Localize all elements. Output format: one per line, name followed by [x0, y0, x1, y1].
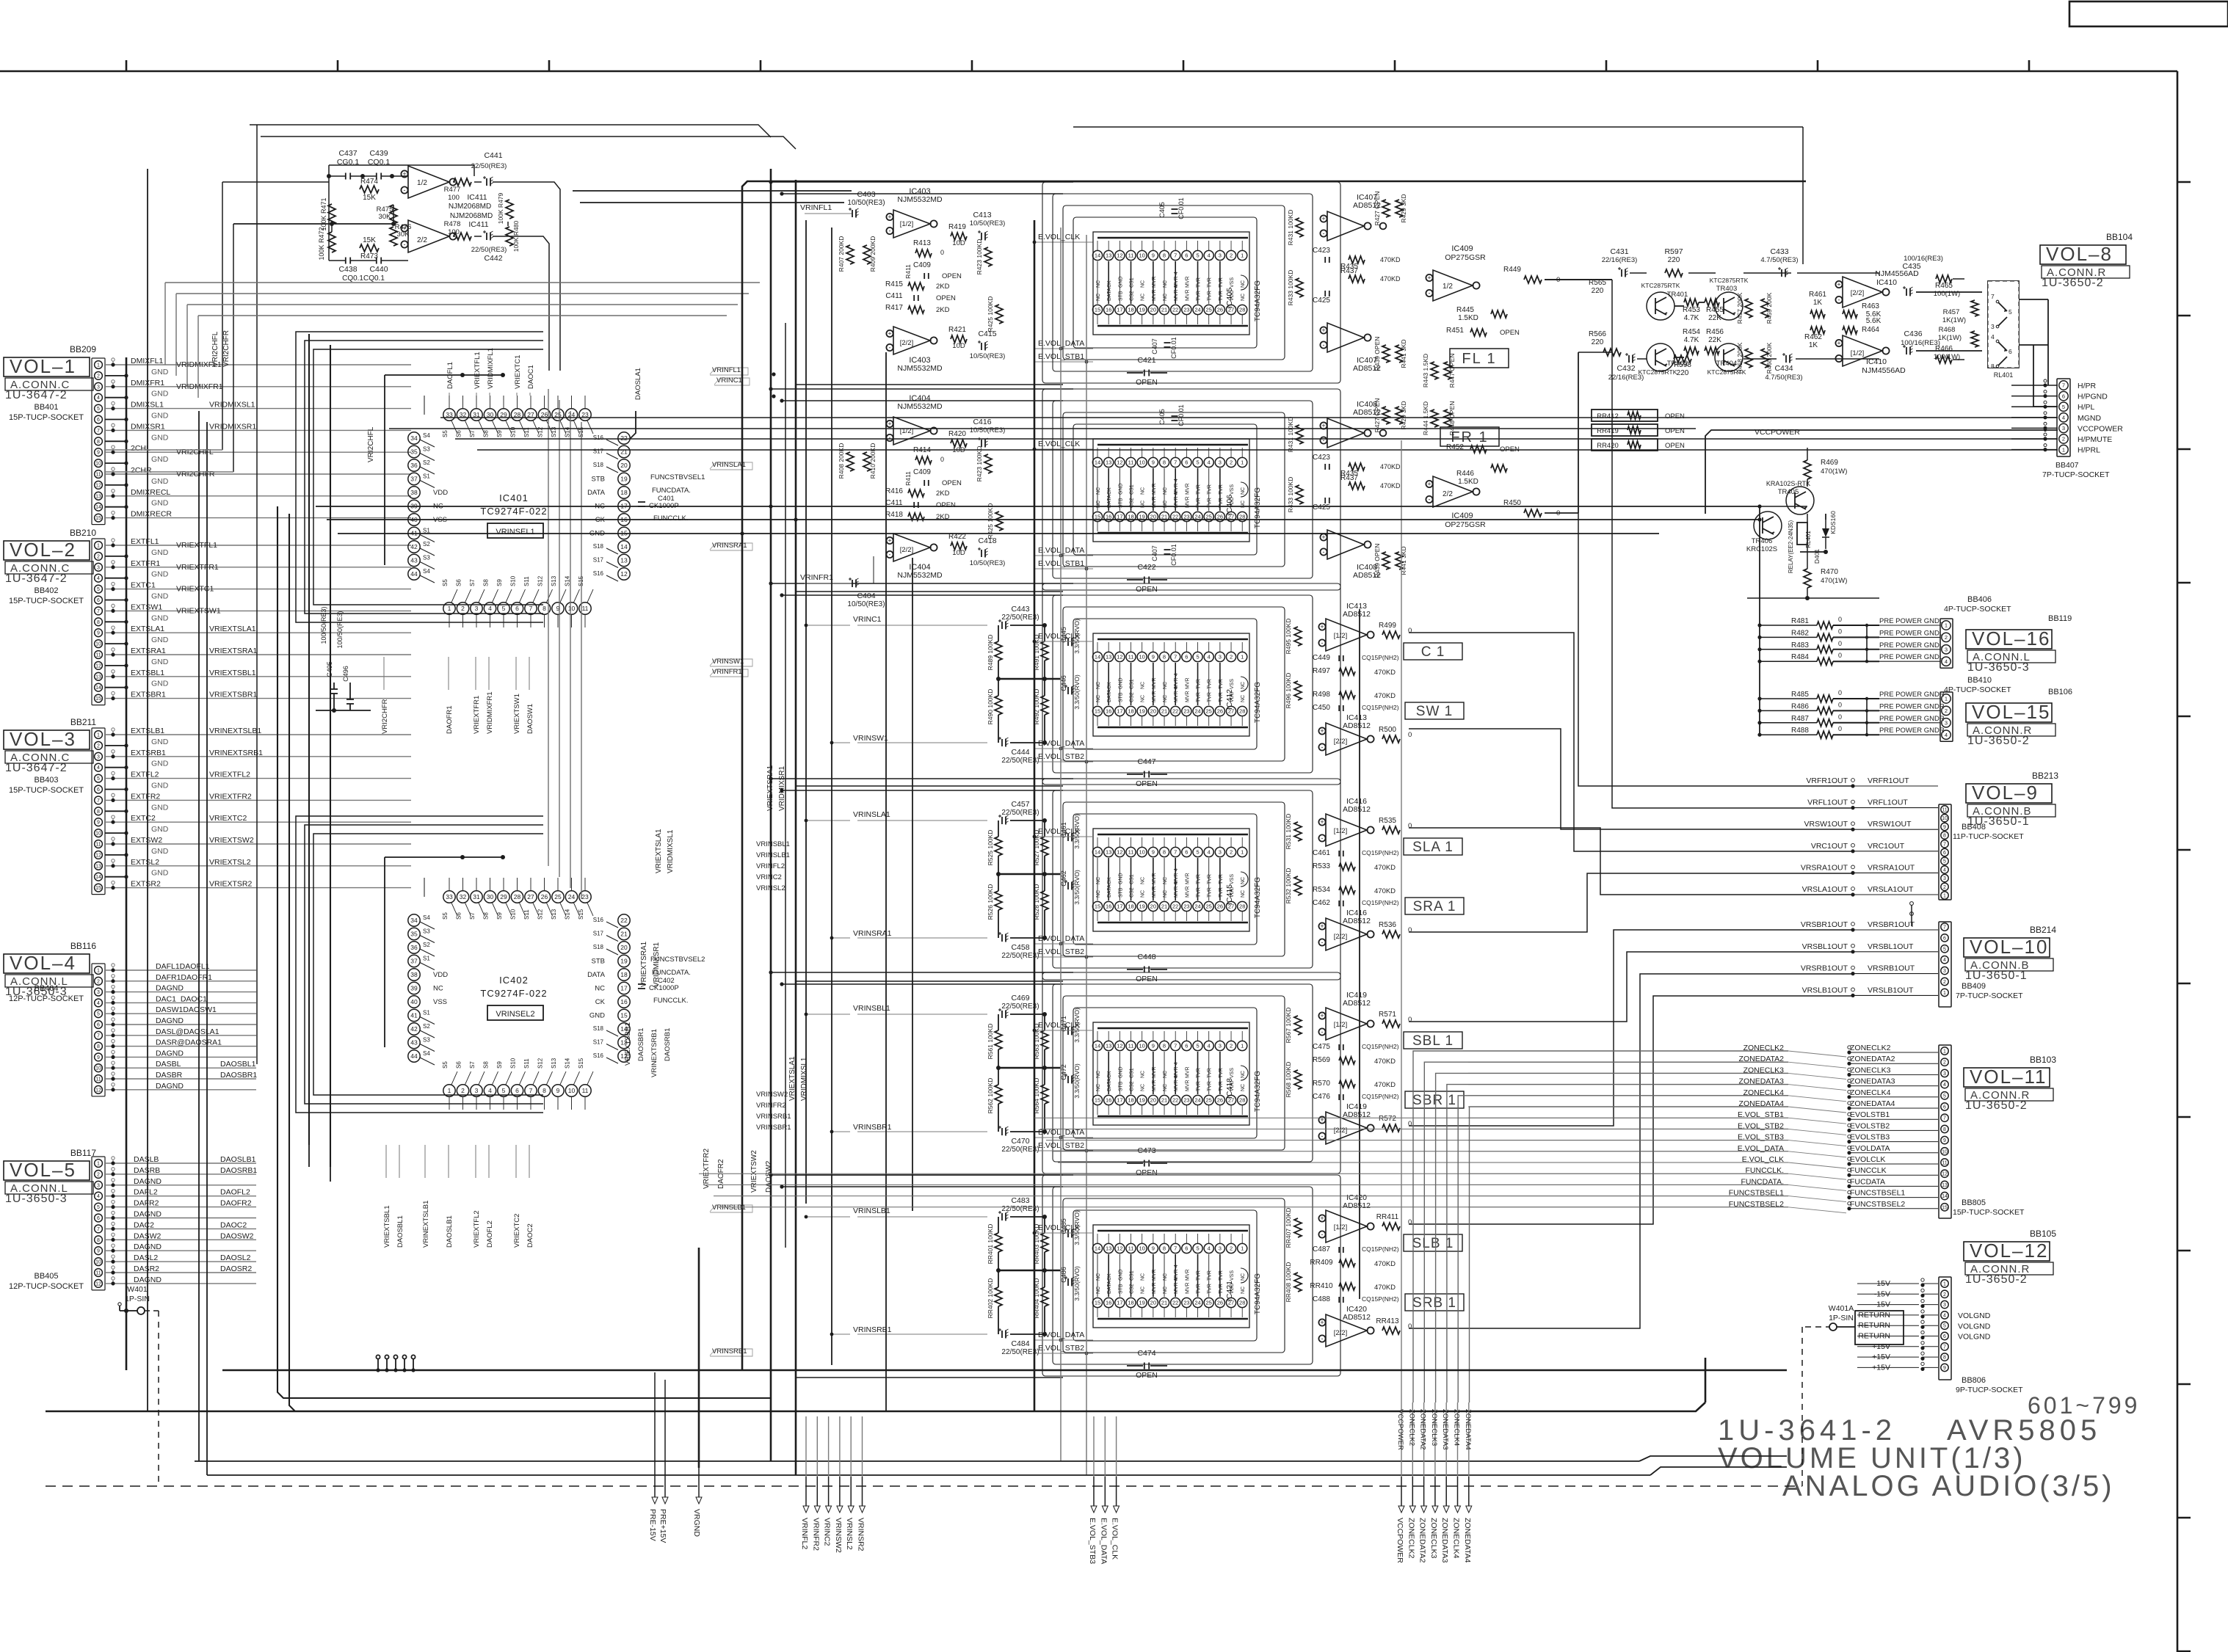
svg-text:C416: C416 [973, 418, 991, 426]
svg-text:4: 4 [1208, 1043, 1211, 1049]
svg-text:SRA 1: SRA 1 [1413, 899, 1456, 914]
svg-text:RR420: RR420 [1597, 442, 1619, 450]
svg-text:220: 220 [1592, 287, 1604, 295]
svg-text:CQ15P(NH2): CQ15P(NH2) [1362, 1093, 1399, 1100]
svg-text:VRIEXTSBR1: VRIEXTSBR1 [624, 1022, 632, 1066]
svg-text:R458 200K: R458 200K [1736, 342, 1743, 374]
svg-text:8: 8 [97, 1238, 100, 1243]
svg-text:C423: C423 [1313, 247, 1330, 255]
svg-text:0: 0 [1408, 926, 1412, 934]
svg-text:NC: NC [595, 985, 605, 993]
wires block outputs to VOL-9 [1612, 280, 1853, 808]
svg-text:-: - [889, 434, 891, 442]
svg-text:-: - [889, 344, 891, 352]
svg-text:DAGND: DAGND [156, 1082, 184, 1091]
svg-text:NC: NC [1141, 877, 1146, 884]
svg-text:470(1W): 470(1W) [1821, 467, 1847, 476]
svg-text:VRINSW2: VRINSW2 [756, 1091, 788, 1099]
svg-text:CQ15P(NH2): CQ15P(NH2) [1362, 654, 1399, 661]
svg-text:10: 10 [1139, 252, 1145, 259]
svg-text:BB402: BB402 [34, 586, 58, 595]
transistor Q-TR405 [1786, 487, 1814, 514]
svg-text:CK: CK [1107, 487, 1112, 495]
svg-text:11: 11 [95, 1077, 101, 1082]
svg-text:C461: C461 [1313, 849, 1330, 857]
svg-text:W401A: W401A [1829, 1304, 1854, 1313]
svg-text:22: 22 [1172, 903, 1178, 910]
svg-text:R433 100KD: R433 100KD [1287, 477, 1294, 513]
svg-text:24: 24 [1194, 708, 1200, 715]
svg-text:9: 9 [1943, 1138, 1946, 1143]
svg-text:21: 21 [1161, 1097, 1167, 1104]
svg-text:DATA: DATA [587, 971, 606, 979]
svg-text:OPEN: OPEN [1136, 1371, 1158, 1380]
svg-text:R481: R481 [1791, 617, 1809, 625]
svg-text:DAOSLB1: DAOSLB1 [446, 1215, 454, 1248]
svg-text:+: + [1320, 1116, 1324, 1124]
svg-text:CQ15P(NH2): CQ15P(NH2) [1362, 849, 1399, 856]
svg-text:C422: C422 [1137, 563, 1155, 572]
svg-text:R439 OPEN: R439 OPEN [1374, 544, 1381, 578]
svg-text:28: 28 [1239, 307, 1245, 313]
svg-text:DAOSW1: DAOSW1 [526, 704, 534, 734]
svg-text:MVR: MVR [1185, 677, 1190, 689]
svg-text:BB407: BB407 [2055, 461, 2079, 470]
svg-text:R411: R411 [904, 264, 912, 279]
svg-text:+: + [888, 214, 891, 221]
svg-text:4: 4 [1945, 732, 1948, 738]
connector VOL-9 pins [1939, 804, 1951, 900]
svg-text:C432: C432 [1616, 364, 1635, 373]
svg-text:25: 25 [1206, 1300, 1212, 1306]
svg-text:DMIXRECL: DMIXRECL [131, 488, 170, 497]
svg-text:11: 11 [95, 653, 101, 658]
svg-text:VCCPOWER: VCCPOWER [2078, 424, 2123, 433]
svg-text:DASL2: DASL2 [134, 1253, 158, 1262]
svg-text:10D: 10D [952, 342, 965, 350]
svg-text:-: - [1321, 639, 1324, 647]
svg-text:RR402 100KD: RR402 100KD [987, 1278, 994, 1319]
svg-text:4: 4 [97, 1001, 100, 1006]
svg-text:R485: R485 [1791, 691, 1809, 699]
svg-text:4: 4 [97, 396, 100, 401]
svg-text:24: 24 [1194, 903, 1200, 910]
svg-text:C404: C404 [857, 592, 875, 600]
svg-text:1K(1W): 1K(1W) [1938, 334, 1962, 342]
svg-text:7: 7 [1943, 1116, 1946, 1121]
svg-text:KTC2875RTK: KTC2875RTK [1710, 277, 1749, 284]
svg-text:D401: D401 [1813, 549, 1821, 564]
svg-text:ZONECLK3: ZONECLK3 [1429, 1518, 1438, 1559]
svg-text:VRSBR1OUT: VRSBR1OUT [1868, 920, 1915, 929]
svg-text:TVR: TVR [1197, 1068, 1202, 1078]
svg-text:R562 100KD: R562 100KD [987, 1078, 994, 1114]
svg-text:3: 3 [1943, 1071, 1946, 1077]
svg-text:EXTSRB1: EXTSRB1 [131, 749, 166, 757]
svg-text:0: 0 [940, 456, 944, 463]
svg-text:R457: R457 [1943, 308, 1960, 316]
resistor RR419 OPEN [1592, 424, 1658, 436]
net flag VRINSRA1 at QFP1 [710, 543, 752, 550]
svg-text:R597: R597 [1664, 247, 1683, 256]
svg-text:C483: C483 [1011, 1196, 1029, 1205]
svg-text:FUNCSTBVSEL1: FUNCSTBVSEL1 [650, 473, 705, 481]
IC U-IC401 TC9274F-022 QFP [443, 409, 455, 421]
wire left vertical trunk C [198, 411, 200, 1461]
resistor R476 30K [390, 227, 397, 246]
svg-text:40: 40 [410, 998, 418, 1005]
svg-text:20: 20 [1150, 1097, 1156, 1104]
svg-text:7: 7 [1943, 842, 1946, 847]
svg-text:NC: NC [1163, 890, 1168, 898]
svg-text:31: 31 [473, 893, 480, 900]
svg-text:R568 100KD: R568 100KD [1285, 1062, 1292, 1098]
svg-text:EXTC1: EXTC1 [131, 581, 156, 590]
svg-text:VRINFL2: VRINFL2 [800, 1518, 809, 1549]
svg-text:NC: NC [1096, 1084, 1101, 1091]
wire top feed 1 [250, 125, 771, 137]
svg-text:CS2: CS2 [1130, 1284, 1135, 1294]
svg-text:3: 3 [97, 385, 100, 390]
svg-text:ZONEDATA4: ZONEDATA4 [1464, 1409, 1472, 1450]
svg-text:14: 14 [1095, 849, 1100, 856]
svg-text:CQ15P(NH2): CQ15P(NH2) [1362, 1043, 1399, 1050]
svg-text:RL401: RL401 [1994, 371, 2014, 379]
connector VOL-10 pins [1939, 922, 1951, 1007]
svg-text:30: 30 [487, 893, 494, 900]
svg-text:26: 26 [1217, 1300, 1223, 1306]
svg-text:1: 1 [1241, 849, 1244, 856]
svg-text:TVR: TVR [1208, 1284, 1213, 1294]
svg-text:NC: NC [433, 985, 443, 993]
svg-text:TVR: TVR [1208, 1081, 1213, 1091]
svg-text:15: 15 [1095, 307, 1100, 313]
svg-text:STB: STB [1118, 1081, 1123, 1091]
svg-text:S8: S8 [483, 579, 490, 586]
svg-text:VRI2CHFL: VRI2CHFL [211, 331, 219, 367]
svg-text:+: + [1321, 327, 1325, 334]
svg-text:MVR-4: MVR-4 [1174, 1278, 1179, 1294]
svg-text:C448: C448 [1137, 953, 1155, 961]
svg-text:SRB 1: SRB 1 [1412, 1295, 1456, 1311]
svg-text:23: 23 [581, 893, 589, 900]
svg-text:IC412: IC412 [1225, 689, 1234, 710]
svg-text:GND: GND [151, 548, 169, 557]
svg-text:0: 0 [1408, 627, 1412, 635]
svg-text:NC: NC [1241, 1287, 1246, 1294]
svg-text:[1/2]: [1/2] [900, 220, 914, 228]
svg-text:GND: GND [151, 412, 169, 421]
wire E.VOL_CLK vertical bus [1034, 220, 1036, 1411]
op-amp U-IC410 2/2 [1843, 277, 1882, 308]
svg-text:S9: S9 [496, 1061, 503, 1069]
svg-text:19: 19 [1139, 903, 1145, 910]
svg-text:S13: S13 [551, 575, 557, 586]
svg-text:VOLGND: VOLGND [1958, 1333, 1991, 1342]
svg-text:NC: NC [1141, 487, 1146, 495]
svg-text:DAC2: DAC2 [134, 1220, 154, 1229]
svg-text:VOL–1: VOL–1 [10, 355, 76, 377]
svg-text:39: 39 [410, 985, 418, 992]
svg-text:6: 6 [1185, 252, 1188, 259]
svg-text:C449: C449 [1313, 654, 1330, 662]
svg-text:VRIEXTSBL1: VRIEXTSBL1 [209, 669, 256, 677]
svg-text:VRINFR2: VRINFR2 [756, 1102, 786, 1110]
svg-text:VRINSR2: VRINSR2 [857, 1518, 866, 1551]
svg-text:3: 3 [97, 1183, 100, 1188]
svg-text:E.VOL_STB3: E.VOL_STB3 [1088, 1518, 1097, 1564]
svg-text:NC: NC [1141, 280, 1146, 288]
svg-text:S10: S10 [510, 575, 517, 586]
svg-text:+: + [888, 330, 891, 338]
svg-text:VRSBL1OUT: VRSBL1OUT [1868, 942, 1914, 951]
svg-text:12: 12 [95, 663, 101, 669]
svg-text:S12: S12 [537, 1058, 544, 1069]
svg-text:VRINSW1: VRINSW1 [853, 734, 888, 743]
svg-text:VOLGND: VOLGND [1958, 1311, 1991, 1320]
resistor R472 100K [328, 232, 335, 252]
svg-text:7: 7 [97, 1227, 100, 1232]
svg-text:GND: GND [1118, 276, 1123, 288]
svg-text:R445: R445 [1456, 306, 1474, 314]
svg-text:DAFL2: DAFL2 [134, 1188, 158, 1197]
svg-text:VRIDMIXSR1: VRIDMIXSR1 [653, 942, 661, 987]
svg-text:RR413: RR413 [1376, 1317, 1399, 1325]
svg-text:TVR: TVR [1197, 679, 1202, 689]
svg-text:3: 3 [1991, 323, 1995, 330]
svg-text:S4: S4 [423, 1050, 430, 1057]
svg-text:VRIEXTC1: VRIEXTC1 [176, 585, 214, 594]
svg-text:R459 200K: R459 200K [1766, 292, 1773, 324]
svg-text:GND: GND [1118, 483, 1123, 495]
svg-text:12: 12 [1942, 1172, 1948, 1177]
wire QFP2 top bus [385, 856, 503, 858]
svg-text:30K: 30K [397, 230, 410, 239]
svg-text:8: 8 [1163, 1245, 1166, 1252]
svg-text:28: 28 [514, 893, 521, 900]
svg-text:1: 1 [1241, 654, 1244, 661]
svg-text:2: 2 [1943, 1292, 1946, 1298]
svg-text:2: 2 [1230, 459, 1233, 466]
svg-text:BB213: BB213 [2032, 771, 2058, 781]
svg-text:29: 29 [500, 893, 507, 900]
svg-text:+: + [1320, 923, 1324, 930]
svg-text:1: 1 [1943, 894, 1946, 899]
svg-text:S4: S4 [423, 568, 430, 575]
wires zone bus [1413, 1051, 1788, 1402]
svg-text:ZONECLK3: ZONECLK3 [1430, 1409, 1438, 1446]
wire vertical bundle QFP1-QFP2 [548, 389, 549, 866]
svg-text:1: 1 [97, 969, 100, 974]
svg-text:BB405: BB405 [34, 1272, 58, 1281]
svg-text:DAFR1DAOFR1: DAFR1DAOFR1 [156, 973, 212, 982]
svg-text:OPEN: OPEN [942, 479, 962, 487]
svg-text:NC: NC [1241, 890, 1246, 898]
svg-text:C407: C407 [1151, 545, 1158, 561]
svg-text:R462: R462 [1804, 333, 1822, 341]
svg-text:220: 220 [1677, 369, 1689, 377]
svg-text:-: - [1321, 1231, 1324, 1238]
wire left vertical trunk D [206, 422, 208, 1475]
svg-text:R429 3KD: R429 3KD [1400, 401, 1407, 429]
svg-text:ZONECLK4: ZONECLK4 [1453, 1409, 1461, 1446]
svg-text:DAOSLA1: DAOSLA1 [634, 368, 642, 400]
svg-text:NC: NC [1096, 294, 1101, 301]
svg-text:C403: C403 [857, 190, 875, 199]
svg-text:10/50(RE3): 10/50(RE3) [970, 219, 1006, 228]
svg-text:10: 10 [1139, 849, 1145, 856]
svg-text:EXTC2: EXTC2 [131, 814, 156, 823]
svg-text:+: + [888, 537, 891, 545]
svg-text:R473: R473 [360, 252, 378, 261]
svg-text:DAOSLB1: DAOSLB1 [220, 1155, 256, 1164]
svg-text:10: 10 [1139, 459, 1145, 466]
svg-text:STB: STB [1118, 887, 1123, 898]
svg-text:VDD: VDD [433, 489, 448, 497]
svg-text:FUNCSTBSEL2: FUNCSTBSEL2 [1850, 1200, 1905, 1209]
svg-text:R483: R483 [1791, 641, 1809, 649]
wire dashed right vertical [1801, 1327, 1803, 1486]
svg-text:VRINC1: VRINC1 [716, 376, 742, 385]
svg-text:TVR: TVR [1219, 1081, 1224, 1091]
svg-text:EVOLSTB3: EVOLSTB3 [1850, 1133, 1890, 1142]
svg-text:VSS: VSS [1230, 679, 1235, 689]
svg-text:VSS: VSS [433, 998, 447, 1006]
svg-text:+: + [888, 421, 891, 428]
svg-text:VRINSL2: VRINSL2 [756, 884, 785, 892]
svg-text:R463: R463 [1862, 302, 1879, 310]
wire PRE POWER left bus [1759, 506, 1760, 735]
connector BB404 pin strip [92, 964, 105, 1096]
svg-text:C425: C425 [1313, 296, 1330, 305]
svg-text:13: 13 [95, 674, 101, 680]
svg-text:12: 12 [95, 483, 101, 488]
wires block outputs to VOL-10 [1409, 952, 1853, 1022]
svg-text:S1: S1 [423, 473, 430, 480]
svg-text:BB103: BB103 [2030, 1055, 2056, 1065]
svg-text:1/2: 1/2 [417, 179, 427, 187]
svg-text:3: 3 [475, 1087, 479, 1094]
svg-text:TR402: TR402 [1667, 360, 1688, 368]
svg-text:10: 10 [95, 832, 101, 837]
svg-text:+: + [1427, 274, 1431, 282]
op-amp U-IC411 2/2 [408, 220, 449, 252]
svg-text:RR412: RR412 [1597, 412, 1619, 421]
svg-text:ZONEDATA4: ZONEDATA4 [1463, 1518, 1472, 1563]
svg-text:TVR: TVR [1197, 1284, 1202, 1294]
svg-text:R457 200K: R457 200K [1736, 292, 1743, 324]
svg-text:DATA: DATA [1107, 1281, 1112, 1294]
svg-text:R461: R461 [1809, 291, 1826, 299]
svg-text:3: 3 [1943, 1303, 1946, 1308]
svg-text:GND: GND [151, 869, 169, 878]
svg-text:VRIEXTSW2: VRIEXTSW2 [209, 836, 254, 845]
svg-text:C470: C470 [1011, 1137, 1029, 1146]
svg-text:15P-TUCP-SOCKET: 15P-TUCP-SOCKET [9, 597, 84, 605]
svg-text:S17: S17 [593, 931, 604, 937]
svg-text:KTC2875RTK: KTC2875RTK [1639, 368, 1677, 376]
svg-text:10D: 10D [952, 549, 965, 557]
svg-text:3.3/50(RVO): 3.3/50(RVO) [1073, 674, 1081, 710]
svg-text:MVR: MVR [1185, 873, 1190, 884]
svg-text:DATA: DATA [587, 489, 606, 497]
wire center trunk 2 [795, 180, 797, 1475]
svg-text:S12: S12 [537, 575, 544, 586]
svg-text:11: 11 [1128, 1043, 1134, 1049]
svg-text:6: 6 [2009, 348, 2012, 355]
svg-text:S9: S9 [496, 430, 503, 437]
svg-text:GND: GND [151, 782, 169, 790]
wire bottom horizontals right [1252, 1460, 1639, 1462]
svg-text:C484: C484 [1011, 1339, 1029, 1348]
svg-text:OPEN: OPEN [1136, 1168, 1158, 1177]
svg-text:14: 14 [95, 875, 101, 880]
svg-text:H/PR: H/PR [2078, 382, 2097, 390]
svg-text:20: 20 [1150, 708, 1156, 715]
svg-text:4.7/50(RE3): 4.7/50(RE3) [1760, 256, 1798, 264]
svg-text:VRSRB1OUT: VRSRB1OUT [1868, 964, 1915, 973]
svg-text:VRIEXTSLA1: VRIEXTSLA1 [209, 625, 256, 633]
svg-text:E.VOL_CLK: E.VOL_CLK [1038, 1223, 1080, 1232]
svg-text:7: 7 [1991, 293, 1995, 300]
svg-text:VRINC2: VRINC2 [756, 873, 782, 881]
svg-text:NC: NC [1241, 877, 1246, 884]
svg-text:+: + [1427, 481, 1431, 488]
svg-text:6: 6 [1943, 1334, 1946, 1339]
svg-text:8: 8 [1163, 459, 1166, 466]
svg-text:12P-TUCP-SOCKET: 12P-TUCP-SOCKET [9, 1282, 84, 1291]
svg-text:VRSRA1OUT: VRSRA1OUT [1801, 863, 1848, 872]
svg-text:9P-TUCP-SOCKET: 9P-TUCP-SOCKET [1956, 1386, 2023, 1394]
svg-text:CQ15P(NH2): CQ15P(NH2) [1362, 899, 1399, 906]
net flag VRINC1 at QFP1 [714, 378, 750, 385]
svg-text:S16: S16 [593, 1052, 604, 1059]
svg-text:FUCDATA: FUCDATA [1850, 1177, 1885, 1186]
svg-text:16: 16 [1106, 307, 1111, 313]
svg-text:E.VOL_CLK: E.VOL_CLK [1038, 827, 1080, 836]
svg-text:10: 10 [95, 642, 101, 647]
svg-text:9: 9 [1152, 654, 1155, 661]
svg-text:[2/2]: [2/2] [900, 546, 914, 554]
svg-text:VRINSEL2: VRINSEL2 [496, 1010, 534, 1019]
svg-text:NJM4556AD: NJM4556AD [1862, 366, 1906, 375]
svg-text:DAOC2: DAOC2 [526, 1223, 534, 1248]
wire horizontal bundle below IC411 [165, 282, 760, 283]
svg-text:MVR: MVR [1185, 1066, 1190, 1078]
svg-text:11: 11 [95, 473, 101, 478]
svg-text:3: 3 [1219, 459, 1222, 466]
svg-text:VRIDMIXFR1: VRIDMIXFR1 [176, 382, 223, 391]
svg-text:S6: S6 [456, 912, 462, 920]
connector BB401 pin strip [92, 358, 105, 525]
svg-text:NJM5532MD: NJM5532MD [897, 402, 943, 411]
svg-text:13: 13 [1106, 654, 1111, 661]
svg-text:S16: S16 [593, 917, 604, 923]
svg-text:17: 17 [1117, 307, 1122, 313]
svg-text:TVR: TVR [1219, 1270, 1224, 1281]
svg-text:VRIEXTSW1: VRIEXTSW1 [513, 694, 521, 734]
svg-text:KRA102S-RTK: KRA102S-RTK [1766, 480, 1810, 487]
svg-text:TVR: TVR [1219, 887, 1224, 898]
svg-text:MGND: MGND [2078, 414, 2101, 423]
svg-text:S12: S12 [537, 909, 544, 920]
svg-text:5: 5 [97, 776, 100, 782]
svg-text:8: 8 [1163, 252, 1166, 259]
svg-text:470KD: 470KD [1380, 482, 1401, 490]
svg-text:IC411: IC411 [467, 193, 487, 202]
svg-text:VRINSLA1: VRINSLA1 [853, 810, 890, 819]
svg-text:CS1: CS1 [1130, 484, 1135, 495]
